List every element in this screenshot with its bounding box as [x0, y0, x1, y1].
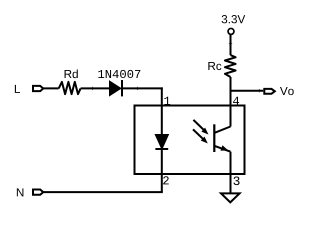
wire N horizontal: [43, 191, 163, 193]
ground: [221, 193, 240, 202]
terminal Vo: [264, 89, 275, 94]
optocoupler U1 box: [135, 106, 245, 175]
node N label: [17, 188, 24, 196]
resistor Rd: [59, 82, 81, 94]
terminal 3.3V: [228, 28, 234, 34]
light arrow 2: [193, 129, 203, 139]
label 1N4007: [98, 70, 140, 78]
phototransistor Q1 base bar: [213, 124, 215, 152]
label Rd: [65, 70, 78, 79]
wire Rc to collector: [230, 77, 232, 127]
node Vo label: [280, 87, 294, 95]
wire emitter to pin 3: [230, 152, 232, 194]
light arrow 1: [193, 120, 204, 130]
label Rc: [208, 62, 221, 70]
wire LED cathode to N: [161, 149, 163, 192]
wire joint tick at 137.5,88.4: [137, 87, 139, 90]
diode D1 1N4007: [110, 82, 120, 95]
pin 1 label: [164, 97, 170, 105]
terminal L: [33, 86, 43, 91]
wire L to Rd: [43, 87, 59, 89]
wire node 4 to Vo: [231, 90, 264, 92]
wire joint tick at 230.5,43.5: [229, 43, 232, 45]
terminal N: [33, 190, 43, 195]
supply 3.3V label: [222, 15, 246, 23]
pin 3 label: [234, 176, 240, 185]
wire 3.3V to Rc: [230, 34, 232, 55]
phototransistor Q1 collector: [214, 127, 231, 134]
wire D1 to pin 1 corner: [122, 87, 163, 89]
pin 4 label: [233, 97, 239, 105]
resistor Rc: [225, 55, 236, 77]
phototransistor Q1 emitter: [214, 146, 230, 152]
pin 2 label: [163, 176, 169, 184]
wire pin 1 vertical: [161, 87, 163, 135]
wire joint tick at 92.5,88.4: [92, 87, 94, 90]
node L label: [15, 85, 20, 93]
wire Rd to D1: [81, 87, 109, 89]
wire joint tick at 259.5,90.7: [259, 89, 261, 92]
LED D2: [156, 135, 168, 148]
